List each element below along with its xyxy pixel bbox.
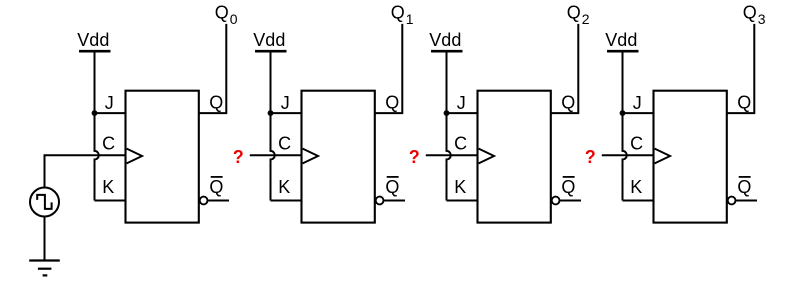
inverting bubble on Q-bar output (stage 4) — [728, 197, 736, 205]
junction dot at J input (stage 2) — [268, 110, 274, 116]
svg-text:Q: Q — [567, 3, 581, 23]
power Vdd rail symbol (stage 4) — [607, 50, 639, 53]
JK flip-flop U1 body — [126, 91, 199, 223]
wire J input (stage 1) — [95, 112, 127, 114]
junction dot at J input (stage 1) — [92, 110, 98, 116]
svg-text:Q: Q — [561, 177, 575, 197]
svg-text:0: 0 — [230, 11, 238, 27]
wire Q-bar output stub (stage 2) — [384, 200, 405, 202]
wire C clock input (stage 2) — [250, 154, 303, 156]
svg-text:Vdd: Vdd — [429, 30, 461, 50]
wire J input (stage 2) — [271, 112, 303, 114]
svg-text:Vdd: Vdd — [605, 30, 637, 50]
svg-text:Q: Q — [743, 3, 757, 23]
inverting bubble on Q-bar output (stage 1) — [200, 197, 208, 205]
wire Q-bar output stub (stage 1) — [208, 200, 229, 202]
clock edge-trigger triangle (stage 1) — [127, 149, 143, 164]
wire C clock input (stage 3) — [426, 154, 479, 156]
ground symbol — [29, 261, 60, 276]
JK flip-flop U2 body — [302, 91, 375, 223]
svg-text:K: K — [102, 177, 114, 197]
wire C clock input (stage 1) — [45, 155, 127, 188]
wire K input (stage 2) — [271, 200, 303, 202]
svg-text:C: C — [278, 133, 291, 153]
JK flip-flop U3 body — [478, 91, 551, 223]
wire Vdd rail to J and K (stage 3, hops over C wire) — [447, 51, 451, 200]
svg-text:3: 3 — [758, 11, 766, 27]
svg-text:1: 1 — [406, 11, 414, 27]
svg-text:C: C — [630, 133, 643, 153]
power Vdd rail symbol (stage 3) — [431, 50, 463, 53]
svg-text:Q: Q — [209, 92, 223, 112]
svg-text:K: K — [278, 177, 290, 197]
wire Q output up to Q0 (stage 1) — [199, 24, 227, 113]
svg-text:Q: Q — [385, 177, 399, 197]
wire C clock input (stage 4) — [602, 154, 655, 156]
junction dot at J input (stage 3) — [444, 110, 450, 116]
wire Q-bar output stub (stage 3) — [560, 200, 581, 202]
wire Q output up to Q2 (stage 3) — [551, 24, 579, 113]
JK flip-flop U4 body — [654, 91, 727, 223]
svg-text:K: K — [630, 177, 642, 197]
svg-text:?: ? — [409, 147, 420, 167]
wire J input (stage 4) — [623, 112, 655, 114]
wire K input (stage 1) — [95, 200, 127, 202]
svg-text:Q: Q — [215, 3, 229, 23]
inverting bubble on Q-bar output (stage 3) — [552, 197, 560, 205]
clock edge-trigger triangle (stage 4) — [655, 149, 671, 164]
svg-text:J: J — [633, 93, 642, 113]
clock edge-trigger triangle (stage 2) — [303, 149, 319, 164]
wire Q-bar output stub (stage 4) — [736, 200, 757, 202]
svg-text:Q: Q — [561, 92, 575, 112]
svg-text:Q: Q — [209, 177, 223, 197]
svg-text:K: K — [454, 177, 466, 197]
wire Q output up to Q3 (stage 4) — [727, 24, 755, 113]
svg-text:Q: Q — [385, 92, 399, 112]
clock source square-wave glyph — [37, 195, 51, 209]
svg-text:J: J — [281, 93, 290, 113]
svg-text:2: 2 — [582, 11, 590, 27]
power Vdd rail symbol (stage 2) — [255, 50, 287, 53]
svg-text:?: ? — [233, 147, 244, 167]
svg-text:Q: Q — [737, 177, 751, 197]
wire Vdd rail to J and K (stage 1, hops over C wire) — [95, 51, 99, 200]
clock edge-trigger triangle (stage 3) — [479, 149, 495, 164]
svg-text:Vdd: Vdd — [77, 30, 109, 50]
wire Q output up to Q1 (stage 2) — [375, 24, 403, 113]
power Vdd rail symbol (stage 1) — [79, 50, 111, 53]
wire clock source to ground — [44, 217, 46, 261]
inverting bubble on Q-bar output (stage 2) — [376, 197, 384, 205]
junction dot at J input (stage 4) — [620, 110, 626, 116]
wire K input (stage 3) — [447, 200, 479, 202]
wire J input (stage 3) — [447, 112, 479, 114]
svg-text:?: ? — [585, 147, 596, 167]
wire Vdd rail to J and K (stage 4, hops over C wire) — [623, 51, 627, 200]
svg-text:C: C — [102, 133, 115, 153]
svg-text:Q: Q — [737, 92, 751, 112]
clock source V1 circle — [30, 188, 59, 217]
svg-text:J: J — [105, 93, 114, 113]
wire K input (stage 4) — [623, 200, 655, 202]
svg-text:Vdd: Vdd — [253, 30, 285, 50]
wire Vdd rail to J and K (stage 2, hops over C wire) — [271, 51, 275, 200]
svg-text:J: J — [457, 93, 466, 113]
svg-text:C: C — [454, 133, 467, 153]
svg-text:Q: Q — [391, 3, 405, 23]
